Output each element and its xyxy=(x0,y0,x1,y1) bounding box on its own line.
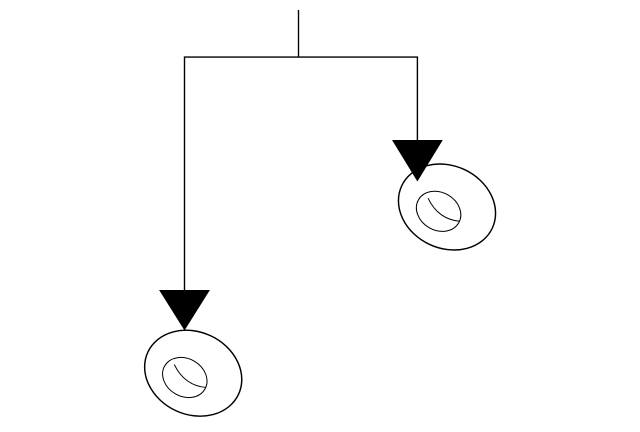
outer membrane ellipse xyxy=(384,148,510,265)
inner nucleus ellipse xyxy=(409,183,468,239)
node cell left xyxy=(130,315,256,432)
arrowhead right xyxy=(392,140,443,182)
arrowhead left xyxy=(159,290,210,331)
wire tree branch xyxy=(185,57,418,292)
outer membrane ellipse xyxy=(130,315,256,432)
inner nucleus ellipse xyxy=(155,350,214,406)
node cell right xyxy=(384,148,510,265)
nucleus fold arc xyxy=(174,364,205,387)
nucleus fold arc xyxy=(428,198,459,221)
wire top stub xyxy=(298,10,300,57)
